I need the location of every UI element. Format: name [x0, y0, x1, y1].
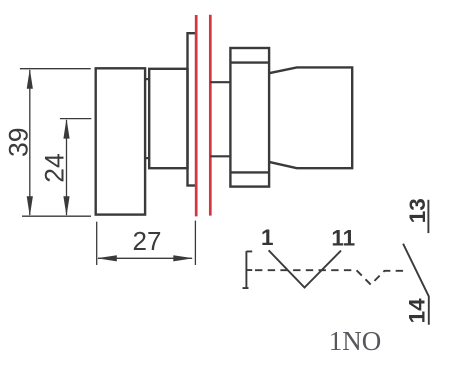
schematic: terminal 13 lead [427, 200, 429, 233]
svg-text:14: 14 [405, 298, 430, 324]
dim 27: left arrowhead [97, 255, 117, 261]
schematic: plunger bracket [243, 251, 253, 288]
svg-text:11: 11 [331, 226, 355, 251]
dim 24: top extension line [60, 118, 91, 120]
bezel step line (lower) between cap and neck [144, 157, 149, 159]
contact block lower divider [230, 171, 269, 173]
button cap (side view, left) [96, 68, 145, 214]
schematic: dashed actuation line [255, 270, 408, 284]
contact block body [230, 48, 269, 187]
rear housing (trapezoid + cylinder) [269, 67, 352, 168]
dim 24: top arrowhead [63, 119, 69, 139]
dim 27: dimension line [98, 257, 192, 259]
svg-text:1: 1 [261, 225, 274, 250]
svg-text:1NO: 1NO [329, 326, 382, 356]
dim 39: top extension line [20, 68, 91, 70]
top latch tab [210, 81, 230, 83]
schematic: actuator link V [269, 250, 341, 287]
svg-text:39: 39 [4, 128, 34, 157]
dim 24: bottom arrowhead [63, 196, 69, 216]
svg-text:24: 24 [40, 153, 70, 182]
bottom latch tab [210, 155, 230, 157]
schematic: NO contact blade + terminal 14 lead [403, 244, 429, 325]
dim 24: dimension line [66, 120, 68, 215]
dim 39/24: bottom extension line [22, 215, 91, 217]
dim 27: left extension line [96, 222, 98, 265]
dim 39: dimension line [29, 70, 31, 215]
dim 27: right arrowhead [173, 255, 193, 261]
bezel step line between cap and neck [144, 78, 149, 80]
mounting flange plate [188, 33, 197, 185]
contact block upper divider [230, 61, 269, 63]
panel line (red, rear) [209, 15, 212, 216]
dim 39: bottom arrowhead [27, 196, 33, 216]
neck (bushing) [149, 69, 187, 168]
svg-text:13: 13 [405, 198, 430, 223]
dim 27: right extension line [194, 221, 196, 265]
svg-text:27: 27 [133, 226, 162, 256]
panel line (red, front) [195, 15, 198, 216]
dim 39: top arrowhead [27, 69, 33, 89]
